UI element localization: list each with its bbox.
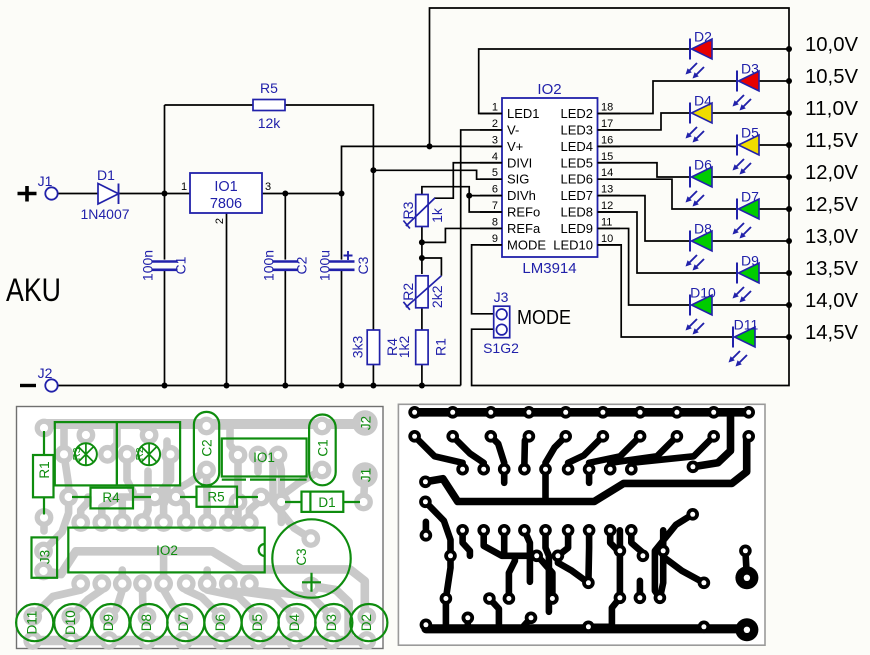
svg-text:C1: C1 bbox=[316, 439, 331, 456]
capacitor C1 bbox=[151, 260, 178, 271]
wire D2 anode to bus bbox=[712, 48, 789, 50]
junction R2 wiper bbox=[419, 255, 425, 261]
wire IO1 pin2 to ground bbox=[226, 213, 228, 386]
pin 2 stub bbox=[480, 129, 502, 131]
svg-text:3: 3 bbox=[265, 181, 271, 193]
svg-text:MODE: MODE bbox=[507, 237, 546, 252]
svg-text:R2: R2 bbox=[135, 447, 146, 460]
capacitor C3 bbox=[328, 260, 355, 271]
svg-text:3: 3 bbox=[492, 134, 498, 146]
svg-text:D5: D5 bbox=[741, 125, 759, 141]
PCB copper traces seen through board bbox=[33, 424, 367, 641]
wire D10 anode to bus bbox=[712, 304, 789, 306]
trimmer R2 bbox=[416, 276, 428, 308]
junction DIVh bbox=[466, 193, 472, 199]
pin 1 stub bbox=[480, 113, 502, 115]
wire pin12 to D9 bbox=[597, 212, 737, 273]
PCB resistor R1 outline bbox=[33, 431, 54, 515]
svg-text:2k2: 2k2 bbox=[429, 285, 445, 308]
svg-text:LED10: LED10 bbox=[553, 237, 593, 252]
pin 9 stub bbox=[480, 244, 502, 246]
svg-text:R1: R1 bbox=[432, 338, 448, 356]
svg-text:IO1: IO1 bbox=[253, 450, 275, 465]
pin 13 stub bbox=[598, 195, 621, 197]
junction C3 bbox=[339, 191, 345, 197]
pin 14 stub bbox=[598, 178, 621, 180]
svg-text:12: 12 bbox=[601, 200, 613, 212]
svg-text:13,5V: 13,5V bbox=[805, 258, 859, 280]
LED D2 bbox=[686, 39, 713, 79]
svg-text:AKU: AKU bbox=[6, 272, 61, 308]
svg-text:R5: R5 bbox=[207, 490, 224, 505]
svg-text:C2: C2 bbox=[200, 439, 215, 456]
LED D3 bbox=[733, 71, 760, 111]
svg-text:1k: 1k bbox=[429, 207, 445, 223]
pin 17 stub bbox=[598, 129, 621, 131]
svg-text:2: 2 bbox=[214, 218, 226, 224]
IC IO2 LM3914 bbox=[502, 98, 598, 257]
wire D8 anode to bus bbox=[712, 240, 789, 242]
svg-text:17: 17 bbox=[601, 118, 613, 130]
svg-text:11: 11 bbox=[601, 216, 612, 228]
LED D10 bbox=[686, 295, 713, 335]
svg-text:DIVh: DIVh bbox=[507, 188, 536, 203]
svg-text:1: 1 bbox=[181, 181, 187, 193]
wire C2 down bbox=[284, 194, 286, 386]
PCB capacitor C3 outline bbox=[272, 519, 350, 597]
jumper J3 bbox=[494, 306, 510, 338]
junction V+ bbox=[427, 143, 433, 149]
svg-text:D7: D7 bbox=[176, 614, 191, 631]
svg-text:R1: R1 bbox=[37, 461, 52, 478]
svg-text:LM3914: LM3914 bbox=[522, 260, 576, 277]
svg-text:5: 5 bbox=[492, 167, 498, 179]
svg-text:LED6: LED6 bbox=[560, 172, 593, 187]
junction bus 2 bbox=[786, 110, 792, 116]
PCB jumper J3 outline bbox=[32, 537, 58, 577]
PCB capacitor C1 outline bbox=[309, 415, 336, 486]
svg-text:D7: D7 bbox=[741, 189, 759, 205]
junction bus 6 bbox=[786, 238, 792, 244]
LED D5 bbox=[733, 135, 760, 175]
junction REFa bbox=[419, 239, 425, 245]
junction rail R4 bbox=[370, 383, 376, 389]
wire MODE pin9 to J3 bbox=[472, 245, 502, 314]
svg-text:3k3: 3k3 bbox=[349, 336, 365, 359]
svg-text:1N4007: 1N4007 bbox=[80, 206, 129, 222]
svg-text:LED7: LED7 bbox=[560, 188, 593, 203]
svg-text:D4: D4 bbox=[287, 613, 302, 631]
svg-text:LED1: LED1 bbox=[507, 106, 540, 121]
svg-text:9: 9 bbox=[492, 233, 498, 245]
svg-text:D11: D11 bbox=[25, 611, 40, 635]
svg-text:LED8: LED8 bbox=[560, 205, 593, 220]
junction rail R1 bbox=[419, 383, 425, 389]
PCB IC IO2 outline bbox=[68, 528, 264, 573]
resistor R1 bbox=[416, 330, 428, 365]
PCB trimmer R3 outline bbox=[55, 422, 117, 485]
junction rail C3 bbox=[339, 383, 345, 389]
svg-text:1: 1 bbox=[492, 102, 498, 114]
svg-text:C2: C2 bbox=[293, 256, 309, 274]
svg-text:12,5V: 12,5V bbox=[805, 194, 859, 216]
svg-text:100n: 100n bbox=[140, 250, 156, 281]
pin 8 stub bbox=[480, 227, 502, 229]
junction bus 8 bbox=[786, 302, 792, 308]
wire pin10 to D11 bbox=[597, 245, 733, 337]
diode D1 bbox=[98, 184, 119, 205]
svg-text:11,0V: 11,0V bbox=[805, 98, 859, 120]
svg-text:13: 13 bbox=[601, 184, 613, 196]
resistor R4 bbox=[367, 330, 379, 365]
svg-text:R3: R3 bbox=[72, 447, 83, 460]
svg-text:LED4: LED4 bbox=[560, 139, 593, 154]
svg-text:7806: 7806 bbox=[210, 196, 242, 212]
svg-text:LED3: LED3 bbox=[560, 122, 593, 137]
svg-text:D5: D5 bbox=[250, 614, 265, 631]
wire REFa jog bbox=[422, 228, 502, 242]
svg-text:2: 2 bbox=[492, 118, 498, 130]
pin 18 stub bbox=[598, 113, 621, 115]
wire D11 anode to bus bbox=[755, 336, 789, 338]
wire R5 right to R4 divider bbox=[285, 105, 373, 330]
LED D11 bbox=[729, 327, 756, 367]
svg-text:D8: D8 bbox=[694, 221, 712, 237]
svg-text:C1: C1 bbox=[173, 256, 189, 274]
svg-text:J2: J2 bbox=[359, 416, 374, 430]
wire pin15 to D6 bbox=[597, 163, 690, 177]
svg-text:D1: D1 bbox=[318, 495, 335, 510]
junction rail IO1 bbox=[224, 383, 230, 389]
svg-text:J1: J1 bbox=[359, 468, 374, 482]
svg-text:8: 8 bbox=[492, 216, 498, 228]
PCB regulator IO1 outline bbox=[222, 439, 307, 480]
svg-text:C3: C3 bbox=[355, 256, 371, 274]
wire SIG to pin5 bbox=[373, 170, 502, 179]
svg-text:14,5V: 14,5V bbox=[805, 322, 859, 344]
LED D7 bbox=[733, 199, 760, 239]
regulator IO1 7806 bbox=[190, 173, 262, 213]
junction bus 5 bbox=[786, 206, 792, 212]
svg-text:D9: D9 bbox=[741, 253, 759, 269]
wire DIVh pin6 bbox=[469, 195, 502, 197]
PCB diode D1 outline bbox=[285, 492, 360, 512]
svg-text:D10: D10 bbox=[63, 610, 78, 635]
svg-text:R2: R2 bbox=[400, 283, 416, 301]
junction SIG bbox=[370, 167, 376, 173]
svg-text:4: 4 bbox=[492, 151, 498, 163]
svg-text:D6: D6 bbox=[213, 614, 228, 631]
svg-text:1k2: 1k2 bbox=[396, 336, 412, 359]
svg-text:100n: 100n bbox=[260, 250, 276, 281]
pin 6 stub bbox=[480, 195, 502, 197]
LED D4 bbox=[686, 103, 713, 143]
PCB capacitor C2 outline bbox=[194, 412, 219, 485]
svg-text:LED2: LED2 bbox=[560, 106, 593, 121]
svg-text:MODE: MODE bbox=[517, 306, 571, 329]
wire pin18 to D3 bbox=[597, 81, 737, 114]
junction bus 1 bbox=[786, 78, 792, 84]
pin 5 stub bbox=[480, 178, 502, 180]
wire main input J1-D1-IO1 bbox=[58, 193, 190, 195]
wire top rail from V+ to LED bus bbox=[430, 8, 790, 386]
wire V- pin2 bbox=[461, 130, 502, 386]
svg-text:IO2: IO2 bbox=[537, 81, 561, 98]
svg-text:DIVI: DIVI bbox=[507, 155, 532, 170]
svg-text:14,0V: 14,0V bbox=[805, 290, 859, 312]
svg-text:14: 14 bbox=[601, 167, 613, 179]
svg-text:IO2: IO2 bbox=[156, 543, 178, 558]
wire pin13 to D8 bbox=[597, 196, 690, 241]
wire pin17 to D4 bbox=[597, 113, 690, 130]
PCB component side board outline bbox=[17, 407, 384, 649]
PCB copper side traces bbox=[408, 406, 758, 641]
wire D7 anode to bus bbox=[759, 208, 789, 210]
pin 10 stub bbox=[598, 244, 621, 246]
junction D1/C1/R5 bbox=[162, 191, 168, 197]
svg-text:D8: D8 bbox=[139, 614, 154, 631]
svg-text:D3: D3 bbox=[741, 61, 759, 77]
wire pin14 to D7 bbox=[597, 179, 737, 209]
capacitor C2 bbox=[272, 260, 299, 271]
svg-text:15: 15 bbox=[601, 151, 613, 163]
svg-text:LED9: LED9 bbox=[560, 221, 593, 236]
svg-text:J1: J1 bbox=[38, 173, 53, 189]
svg-text:D4: D4 bbox=[694, 93, 712, 109]
wire pin16 to D5 bbox=[597, 145, 737, 147]
svg-text:D1: D1 bbox=[97, 167, 115, 183]
svg-text:R5: R5 bbox=[260, 80, 278, 96]
pin 16 stub bbox=[598, 145, 621, 147]
junction bus 4 bbox=[786, 174, 792, 180]
wire R2 wiper link bbox=[422, 258, 442, 276]
svg-text:100u: 100u bbox=[317, 250, 333, 281]
wire C3 down bbox=[341, 194, 343, 386]
svg-text:D6: D6 bbox=[694, 157, 712, 173]
svg-text:13,0V: 13,0V bbox=[805, 226, 859, 248]
PCB resistor R4 outline bbox=[72, 488, 151, 509]
svg-text:SIG: SIG bbox=[507, 172, 529, 187]
connector J2 bbox=[45, 379, 57, 391]
svg-text:11,5V: 11,5V bbox=[805, 130, 859, 152]
svg-text:10: 10 bbox=[601, 233, 613, 245]
svg-text:J3: J3 bbox=[38, 550, 53, 564]
wire LED1 to D2 bbox=[479, 49, 690, 114]
pin 4 stub bbox=[480, 162, 502, 164]
junction bus 7 bbox=[786, 270, 792, 276]
LED D9 bbox=[733, 263, 760, 303]
wire D4 anode to bus bbox=[712, 112, 789, 114]
junction C2 bbox=[282, 191, 288, 197]
svg-text:REFa: REFa bbox=[507, 221, 541, 236]
svg-text:D11: D11 bbox=[734, 317, 759, 333]
svg-text:D2: D2 bbox=[359, 614, 374, 631]
connector J1 bbox=[45, 187, 57, 199]
svg-text:D10: D10 bbox=[690, 285, 716, 301]
svg-text:R3: R3 bbox=[400, 201, 416, 219]
junction bus 9 bbox=[786, 334, 792, 340]
svg-text:12,0V: 12,0V bbox=[805, 162, 859, 184]
junction bus 0 bbox=[786, 46, 792, 52]
svg-text:C3: C3 bbox=[294, 548, 309, 565]
svg-text:S1G2: S1G2 bbox=[483, 340, 519, 356]
pin 12 stub bbox=[598, 211, 621, 213]
wire pin11 to D10 bbox=[597, 228, 690, 305]
PCB copper side board outline bbox=[398, 404, 765, 645]
PCB resistor R5 outline bbox=[180, 487, 258, 507]
resistor R5 bbox=[253, 100, 285, 111]
svg-text:12k: 12k bbox=[258, 115, 282, 131]
junction rail C1 bbox=[162, 383, 168, 389]
wire R5 branch left bbox=[165, 104, 254, 106]
wire IO1 output bbox=[262, 193, 342, 195]
svg-text:J2: J2 bbox=[38, 365, 53, 381]
minus terminal symbol bbox=[20, 384, 36, 387]
svg-text:16: 16 bbox=[601, 134, 613, 146]
wire D6 anode to bus bbox=[712, 176, 789, 178]
wire R3 bottom chain bbox=[421, 226, 423, 274]
svg-text:6: 6 bbox=[492, 184, 498, 196]
wire V+ line bbox=[342, 146, 503, 193]
svg-text:D9: D9 bbox=[101, 614, 116, 631]
svg-text:R4: R4 bbox=[102, 490, 120, 505]
junction bus 3 bbox=[786, 142, 792, 148]
svg-text:V+: V+ bbox=[507, 139, 523, 154]
svg-text:18: 18 bbox=[601, 102, 613, 114]
wire D5 anode to bus bbox=[759, 144, 789, 146]
pin 3 stub bbox=[480, 145, 502, 147]
plus terminal symbol bbox=[18, 186, 37, 202]
wire ground rail bbox=[52, 385, 461, 387]
wire D9 anode to bus bbox=[759, 272, 789, 274]
wire D3 anode to bus bbox=[759, 80, 789, 82]
wire R3 top to DIVh REFo bbox=[422, 187, 502, 212]
svg-text:D2: D2 bbox=[694, 29, 712, 45]
wire DIVI to R3 wiper bbox=[434, 163, 502, 198]
pin 11 stub bbox=[598, 227, 621, 229]
PCB LED footprints D11-D2 bbox=[16, 604, 53, 641]
junction rail C2 bbox=[282, 383, 288, 389]
svg-text:10,5V: 10,5V bbox=[805, 66, 859, 88]
svg-text:7: 7 bbox=[492, 200, 498, 212]
pin 15 stub bbox=[598, 162, 621, 164]
trimmer R3 bbox=[416, 195, 428, 227]
svg-text:IO1: IO1 bbox=[214, 179, 237, 195]
wire R2 to R1 bbox=[421, 308, 423, 331]
svg-text:LED5: LED5 bbox=[560, 155, 593, 170]
LED D8 bbox=[686, 231, 713, 271]
LED D6 bbox=[686, 167, 713, 207]
pin 7 stub bbox=[480, 211, 502, 213]
svg-text:D3: D3 bbox=[324, 614, 339, 631]
svg-text:10,0V: 10,0V bbox=[805, 34, 859, 56]
svg-text:REFo: REFo bbox=[507, 205, 540, 220]
svg-text:V-: V- bbox=[507, 122, 519, 137]
PCB trimmer R2 outline bbox=[117, 422, 180, 485]
svg-text:J3: J3 bbox=[494, 289, 509, 305]
